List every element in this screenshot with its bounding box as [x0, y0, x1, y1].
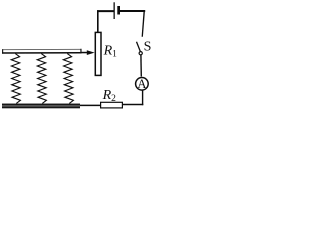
top plate left end cap	[2, 49, 3, 53]
spring 1 (left)	[11, 54, 20, 104]
bottom plate top edge	[2, 104, 80, 105]
bottom plate bottom edge	[2, 107, 80, 108]
wire bottom left horizontal (R2 to spring plate)	[79, 105, 101, 107]
switch S pivot circle	[139, 52, 142, 55]
slider arrow head	[87, 50, 95, 55]
wire right vertical (battery to switch)	[142, 10, 145, 37]
rheostat R1 body	[95, 32, 101, 75]
wire switch to ammeter	[140, 55, 142, 77]
wire bottom right horizontal (corner to R2)	[123, 104, 144, 106]
top plate right end cap	[80, 49, 81, 54]
top plate thicker bottom edge	[2, 52, 81, 54]
svg-text:S: S	[144, 39, 152, 54]
wire left vertical (battery to R1)	[97, 10, 99, 32]
top plate (platform on springs)	[2, 50, 81, 53]
spring 2 (middle)	[37, 54, 46, 104]
wire ammeter down to corner	[142, 90, 143, 105]
battery cell short thick plate (right electrode)	[117, 6, 120, 15]
bottom plate (base)	[2, 104, 80, 109]
top plate top edge	[2, 49, 81, 50]
ammeter circle	[136, 78, 149, 91]
slider wire (plate to R1 wiper)	[81, 52, 88, 54]
spring 3 (right)	[63, 54, 73, 104]
battery cell long plate (left electrode)	[114, 2, 115, 19]
svg-text:A: A	[137, 77, 146, 91]
resistor R2 body	[101, 102, 123, 108]
wire battery-right top horizontal	[120, 10, 146, 12]
switch S blade	[136, 42, 141, 52]
wire battery-left top horizontal	[97, 10, 114, 12]
